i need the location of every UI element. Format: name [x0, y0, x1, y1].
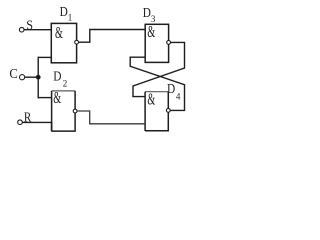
- wire C to junction: [25, 76, 39, 78]
- wire D1 output to D3 upper input: [79, 30, 146, 43]
- svg-text:D: D: [53, 70, 61, 85]
- wire C branch to D1 lower input: [38, 56, 52, 58]
- svg-text:C: C: [9, 67, 17, 82]
- label D4: [167, 82, 181, 102]
- svg-text:D: D: [60, 5, 68, 20]
- node S terminal: [19, 27, 24, 32]
- node C terminal: [20, 75, 25, 80]
- label D3: [143, 6, 156, 24]
- wire R to D2 lower input: [22, 121, 51, 123]
- label D2: [53, 70, 67, 89]
- wire D3 output cross-coupled to D4 upper input: [133, 42, 185, 96]
- wire D2 output to D4 lower input: [77, 111, 145, 124]
- output bubble of D3: [167, 41, 171, 45]
- svg-text:&: &: [55, 23, 63, 42]
- wire D4 output cross-coupled to D3 lower input: [130, 57, 184, 110]
- svg-text:1: 1: [68, 13, 73, 23]
- svg-text:R: R: [24, 111, 32, 126]
- svg-text:D: D: [167, 82, 175, 97]
- svg-text:4: 4: [176, 91, 181, 101]
- label D1: [60, 5, 73, 23]
- wire S to D1 input: [24, 29, 51, 31]
- svg-text:S: S: [26, 18, 33, 33]
- svg-text:&: &: [53, 88, 61, 107]
- nand gate D4 body: [145, 89, 168, 131]
- svg-text:2: 2: [63, 79, 67, 89]
- nand gate D2 body: [52, 88, 76, 131]
- svg-text:3: 3: [151, 14, 156, 24]
- nand gate D3 body: [145, 22, 168, 62]
- output bubble of D4: [166, 109, 170, 113]
- output bubble of D1: [75, 40, 79, 44]
- junction dot on C line: [36, 75, 41, 80]
- wire C branch to D2 upper input: [38, 97, 52, 99]
- svg-text:&: &: [147, 89, 155, 108]
- nand gate D1 body: [51, 23, 76, 63]
- svg-text:&: &: [147, 22, 155, 41]
- node R terminal: [18, 120, 23, 125]
- output bubble of D2: [73, 109, 77, 113]
- svg-text:D: D: [143, 6, 151, 21]
- wire C vertical branch: [37, 57, 39, 99]
